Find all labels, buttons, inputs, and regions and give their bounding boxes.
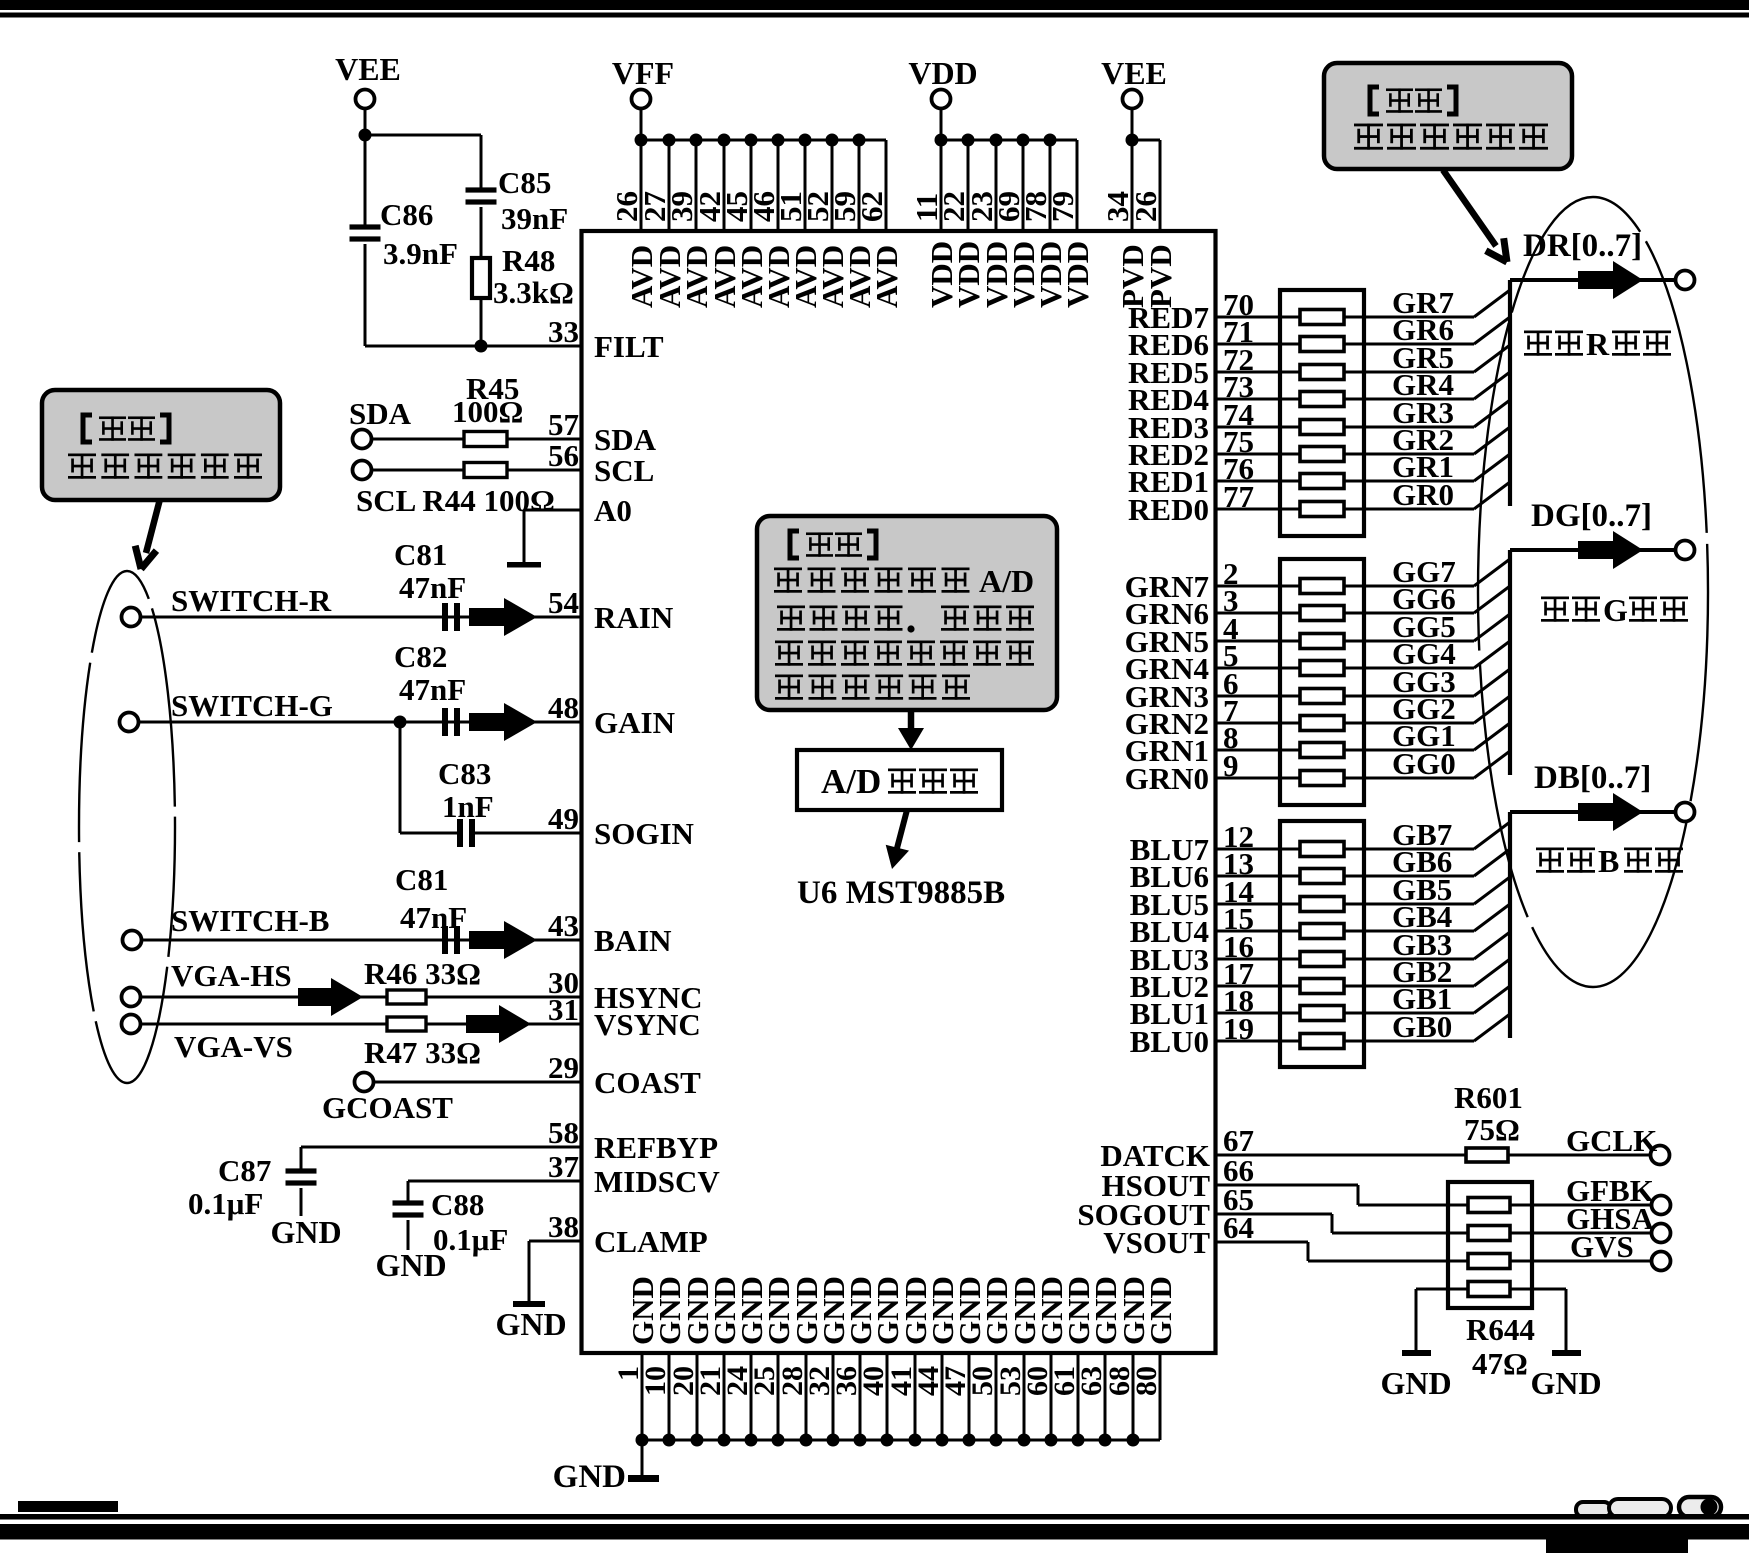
svg-text:VEE: VEE <box>335 51 401 87</box>
svg-text:A0: A0 <box>594 493 632 528</box>
svg-text:COAST: COAST <box>594 1065 701 1100</box>
svg-text:GG0: GG0 <box>1392 746 1456 781</box>
svg-text:37: 37 <box>548 1149 579 1184</box>
svg-text:SCL: SCL <box>594 453 654 488</box>
svg-text:GB0: GB0 <box>1392 1009 1452 1044</box>
svg-text:GVS: GVS <box>1570 1229 1634 1264</box>
svg-text:VGA-HS: VGA-HS <box>171 958 292 993</box>
svg-text:VSYNC: VSYNC <box>594 1007 701 1042</box>
svg-text:SDA: SDA <box>349 396 412 431</box>
svg-text:0.1μF: 0.1μF <box>433 1222 508 1257</box>
svg-text:29: 29 <box>548 1050 579 1085</box>
svg-text:57: 57 <box>548 407 579 442</box>
svg-text:1nF: 1nF <box>442 789 494 824</box>
svg-text:58: 58 <box>548 1115 579 1150</box>
svg-text:62: 62 <box>854 191 889 222</box>
svg-text:47nF: 47nF <box>400 900 467 935</box>
svg-text:SWITCH-R: SWITCH-R <box>171 583 332 618</box>
svg-text:R644: R644 <box>1466 1312 1535 1347</box>
svg-text:VSOUT: VSOUT <box>1103 1225 1210 1260</box>
svg-text:47Ω: 47Ω <box>1472 1346 1528 1381</box>
svg-text:G: G <box>1603 592 1628 628</box>
svg-text:0.1μF: 0.1μF <box>188 1186 263 1221</box>
svg-text:GND: GND <box>553 1459 626 1495</box>
svg-text:C81: C81 <box>394 537 447 572</box>
svg-text:C82: C82 <box>394 639 447 674</box>
svg-text:R: R <box>1586 326 1610 362</box>
svg-text:39nF: 39nF <box>501 201 568 236</box>
svg-text:FILT: FILT <box>594 329 664 364</box>
svg-text:VFF: VFF <box>612 55 674 91</box>
svg-text:3.9nF: 3.9nF <box>383 236 458 271</box>
svg-text:VEE: VEE <box>1101 55 1167 91</box>
svg-text:GCOAST: GCOAST <box>322 1090 453 1125</box>
svg-text:REFBYP: REFBYP <box>594 1130 718 1165</box>
svg-text:47nF: 47nF <box>399 570 466 605</box>
svg-text:48: 48 <box>548 690 579 725</box>
svg-text:GND: GND <box>270 1214 341 1250</box>
svg-text:33: 33 <box>548 314 579 349</box>
svg-text:DG[0..7]: DG[0..7] <box>1531 498 1652 534</box>
svg-text:SWITCH-G: SWITCH-G <box>171 688 333 723</box>
svg-text:B: B <box>1598 843 1619 879</box>
svg-text:DR[0..7]: DR[0..7] <box>1523 228 1642 264</box>
svg-text:R48: R48 <box>502 243 555 278</box>
svg-text:VGA-VS: VGA-VS <box>174 1029 293 1064</box>
svg-text:26: 26 <box>1128 191 1163 222</box>
svg-text:AVD: AVD <box>869 245 904 308</box>
svg-text:GND: GND <box>1530 1365 1601 1401</box>
svg-text:R46 33Ω: R46 33Ω <box>364 956 481 991</box>
svg-text:GND: GND <box>1380 1365 1451 1401</box>
svg-text:79: 79 <box>1045 191 1080 222</box>
svg-text:A/D: A/D <box>821 762 881 801</box>
svg-text:CLAMP: CLAMP <box>594 1224 708 1259</box>
svg-text:C88: C88 <box>431 1187 484 1222</box>
svg-text:C81: C81 <box>395 862 448 897</box>
svg-text:GCLK: GCLK <box>1566 1123 1657 1158</box>
svg-text:SWITCH-B: SWITCH-B <box>171 903 329 938</box>
svg-text:VDD: VDD <box>1060 241 1095 308</box>
svg-text:RED0: RED0 <box>1128 492 1209 527</box>
svg-text:80: 80 <box>1130 1366 1163 1396</box>
svg-text:43: 43 <box>548 908 579 943</box>
svg-text:54: 54 <box>548 585 579 620</box>
svg-text:GR0: GR0 <box>1392 477 1454 512</box>
svg-text:R47 33Ω: R47 33Ω <box>364 1035 481 1070</box>
svg-text:GAIN: GAIN <box>594 705 675 740</box>
svg-text:SOGIN: SOGIN <box>594 816 694 851</box>
svg-text:49: 49 <box>548 801 579 836</box>
svg-text:75Ω: 75Ω <box>1464 1112 1520 1147</box>
svg-text:U6 MST9885B: U6 MST9885B <box>797 875 1005 911</box>
svg-text:GND: GND <box>1143 1276 1178 1345</box>
svg-text:PVD: PVD <box>1143 244 1178 308</box>
svg-text:R601: R601 <box>1454 1080 1523 1115</box>
svg-text:38: 38 <box>548 1209 579 1244</box>
svg-text:C85: C85 <box>498 165 551 200</box>
svg-text:3.3kΩ: 3.3kΩ <box>493 275 574 310</box>
svg-text:A/D: A/D <box>979 563 1034 599</box>
svg-text:47nF: 47nF <box>399 672 466 707</box>
svg-text:C86: C86 <box>380 197 433 232</box>
svg-text:DB[0..7]: DB[0..7] <box>1534 760 1651 796</box>
svg-text:56: 56 <box>548 438 579 473</box>
svg-text:C87: C87 <box>218 1153 271 1188</box>
svg-text:RAIN: RAIN <box>594 600 673 635</box>
svg-text:GRN0: GRN0 <box>1125 761 1209 796</box>
svg-text:BAIN: BAIN <box>594 923 672 958</box>
svg-text:SDA: SDA <box>594 422 657 457</box>
svg-text:GND: GND <box>495 1306 566 1342</box>
svg-text:MIDSCV: MIDSCV <box>594 1164 720 1199</box>
svg-text:C83: C83 <box>438 756 491 791</box>
svg-text:BLU0: BLU0 <box>1130 1024 1209 1059</box>
svg-text:VDD: VDD <box>908 55 977 91</box>
svg-text:100Ω: 100Ω <box>452 394 523 429</box>
